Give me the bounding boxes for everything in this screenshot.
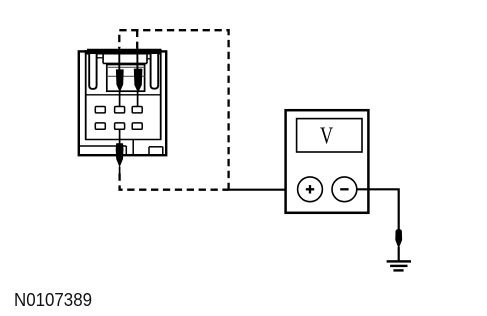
terminal cavity pin 2 (top row middle) (115, 107, 125, 113)
probe terminal C (bottom, at pin 5) (116, 143, 124, 173)
svg-text:N0107389: N0107389 (14, 289, 92, 310)
ground probe bullet (395, 229, 402, 249)
terminal cavity pin 5 (bottom row middle) (115, 123, 125, 129)
connector latch tower top section (97, 54, 151, 63)
connector C1 housing outer shell (79, 50, 166, 156)
voltmeter positive terminal + (298, 177, 323, 202)
connector bottom rim with index notches (80, 140, 163, 155)
wire from probe A to pin 2 (119, 91, 121, 107)
terminal cavity pin 4 (bottom row left) (95, 123, 105, 129)
voltmeter display window (297, 119, 362, 152)
connector latch tower body (107, 65, 145, 92)
terminal cavity pin 1 (top row left) (95, 107, 105, 113)
terminal cavity pin 6 (bottom row right) (132, 123, 142, 129)
svg-text:V: V (320, 122, 333, 149)
wire from pin 5 to probe C (119, 129, 121, 145)
wire from negative terminal to ground drop (357, 189, 399, 230)
ground (387, 260, 411, 271)
probe terminal B (inserted, right) (134, 48, 143, 93)
wire junction to voltmeter positive lead (228, 189, 299, 191)
wire from ground probe to ground (398, 247, 400, 261)
terminal cavity pin 3 (top row right) (132, 107, 142, 113)
dashed jumper wire: probe B branch (136, 30, 138, 49)
probe terminal A (inserted, left) (116, 48, 124, 93)
dashed wire: probe C down and right to junction (120, 174, 229, 190)
connector right latch slot (151, 54, 159, 89)
connector left latch slot (89, 54, 96, 89)
wire from probe B to pin 3 (137, 92, 139, 107)
voltmeter negative terminal - (332, 177, 357, 202)
voltmeter V1 case (286, 110, 369, 213)
dashed jumper wire: probe A up, across top, down to meter line (119, 30, 228, 190)
